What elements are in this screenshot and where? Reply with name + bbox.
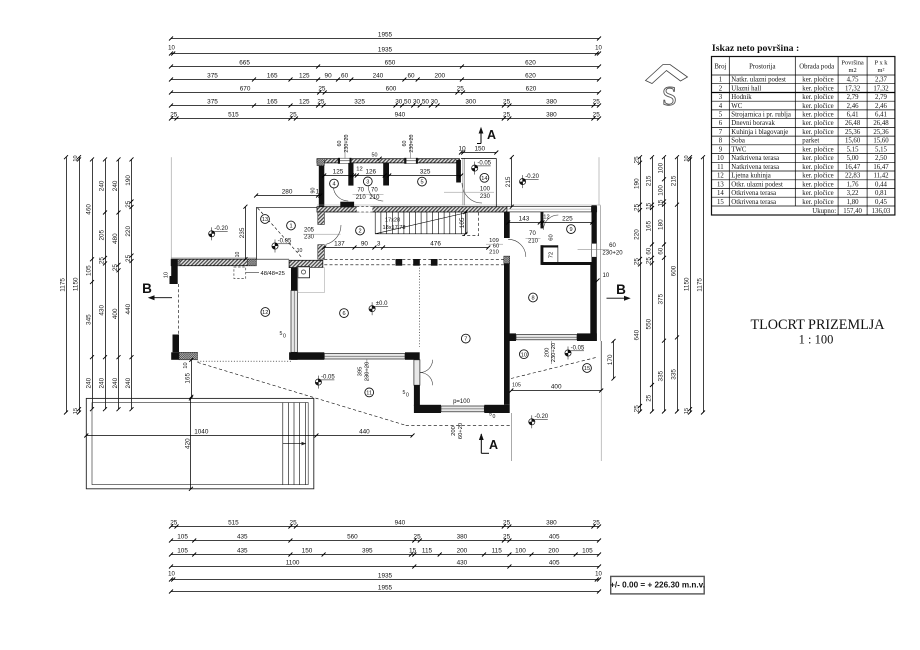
section marker A top: [477, 127, 496, 144]
svg-text:Kuhinja i blagovanje: Kuhinja i blagovanje: [731, 129, 788, 136]
glass band above rooms 9/8: [507, 206, 597, 212]
svg-text:400: 400: [551, 384, 562, 391]
dimension line dim: [184, 396, 193, 490]
extension line left building edge: [170, 157, 172, 259]
wall: partition room5|room14: [456, 160, 461, 183]
svg-text:230+20: 230+20: [344, 134, 350, 152]
room number circle 2: [356, 226, 365, 235]
dimension line dim: [59, 155, 68, 414]
svg-text:50: 50: [404, 99, 412, 106]
svg-text:190: 190: [125, 175, 132, 186]
svg-text:460: 460: [85, 204, 92, 215]
thin outer skin line right wall: [600, 205, 602, 341]
svg-text:25: 25: [125, 200, 132, 208]
svg-text:136,03: 136,03: [872, 208, 891, 215]
svg-text:650: 650: [385, 60, 396, 67]
svg-text:440: 440: [125, 303, 132, 314]
svg-text:940: 940: [395, 112, 406, 119]
svg-text:10: 10: [235, 252, 241, 258]
svg-text:12: 12: [717, 173, 724, 180]
dimension line dim: [322, 169, 354, 178]
svg-text:200: 200: [457, 548, 468, 555]
title TLOCRT PRIZEMLJA: [750, 317, 885, 347]
small 50 above wall: [372, 153, 382, 161]
pool steps: [283, 403, 306, 485]
svg-text:126: 126: [365, 169, 376, 176]
svg-text:210: 210: [528, 239, 539, 245]
svg-text:165: 165: [267, 73, 278, 80]
window in top wall (60/230+20) left: [338, 158, 351, 164]
svg-text:345: 345: [85, 314, 92, 325]
svg-text:4: 4: [719, 103, 723, 110]
svg-text:215: 215: [645, 175, 652, 186]
wall: room7 east wall: [504, 212, 510, 405]
svg-text:2,79: 2,79: [847, 94, 859, 101]
svg-text:210: 210: [356, 195, 367, 201]
dimension line dim: [322, 241, 490, 250]
svg-text:205: 205: [304, 228, 315, 234]
wall: left terrace west wall upper: [171, 259, 178, 284]
svg-text:105: 105: [582, 548, 593, 555]
svg-text:30: 30: [431, 99, 439, 106]
svg-text:10: 10: [521, 352, 527, 358]
svg-text:335: 335: [670, 369, 677, 380]
label 60/230+20 room9 window: [602, 243, 623, 257]
svg-text:25: 25: [503, 534, 511, 541]
svg-text:3: 3: [719, 94, 723, 101]
svg-text:25: 25: [633, 258, 640, 266]
dashed headroom line at stairs: [462, 213, 479, 237]
svg-text:70: 70: [371, 188, 378, 194]
dimension line dim: [696, 155, 705, 414]
svg-text:60: 60: [645, 247, 652, 255]
svg-text:90: 90: [325, 73, 333, 80]
dimension line dim: [169, 60, 601, 69]
svg-text:WC: WC: [731, 103, 742, 110]
svg-text:395: 395: [358, 367, 364, 377]
dimension line dim: [125, 157, 134, 411]
svg-text:400: 400: [112, 308, 119, 319]
svg-text:60: 60: [657, 247, 664, 255]
labels 395/230+20 room11 window: [358, 360, 371, 382]
svg-text:380: 380: [546, 99, 557, 106]
svg-text:60: 60: [402, 141, 408, 147]
spot elevation porch -0.05: [272, 238, 292, 252]
door arc entry room5 (100/230): [462, 183, 482, 203]
svg-text:TWC: TWC: [731, 146, 747, 153]
labels 70/210 room9 door: [526, 231, 541, 245]
svg-text:940: 940: [395, 520, 406, 527]
svg-text:p=100: p=100: [453, 399, 471, 405]
svg-text:25: 25: [633, 203, 640, 211]
dimension line dim: [169, 73, 601, 82]
svg-text:5: 5: [420, 180, 423, 186]
door arc room 3: [368, 186, 383, 201]
svg-text:105: 105: [177, 534, 188, 541]
svg-text:1 : 100: 1 : 100: [799, 333, 834, 347]
dimension line dim: [506, 216, 594, 225]
svg-text:375: 375: [657, 293, 664, 304]
dimension line dim: [509, 384, 603, 393]
svg-text:10: 10: [595, 46, 602, 52]
dotted divider rooms 6|7: [419, 268, 421, 347]
svg-text:ker. pločice: ker. pločice: [802, 146, 833, 153]
dimension line dim: [352, 169, 387, 178]
svg-text:ker. pločice: ker. pločice: [802, 85, 833, 92]
svg-text:2: 2: [358, 229, 361, 235]
dimension line dim: [505, 155, 514, 209]
svg-text:m2: m2: [849, 67, 857, 74]
wall: closet left wall upper (room9): [541, 212, 544, 229]
extension line bottom right: [600, 391, 602, 462]
svg-text:200: 200: [434, 73, 445, 80]
section marker B left: [142, 281, 172, 300]
window in top wall (60/230+20) right: [404, 158, 417, 164]
dimension line dim: [239, 205, 248, 262]
svg-text:220: 220: [633, 229, 640, 240]
svg-text:137: 137: [334, 241, 345, 248]
svg-text:2: 2: [719, 85, 723, 92]
small 50 labels: [280, 331, 496, 420]
svg-text:10: 10: [684, 155, 690, 161]
extension line right building edge: [598, 157, 600, 205]
svg-text:Ljetna kuhinja: Ljetna kuhinja: [731, 173, 770, 180]
svg-text:25: 25: [593, 99, 601, 106]
svg-text:420: 420: [184, 438, 191, 449]
svg-text:100: 100: [657, 185, 664, 196]
svg-text:15,60: 15,60: [845, 138, 861, 145]
room number circle 1: [287, 221, 296, 230]
svg-text:12: 12: [543, 215, 549, 221]
svg-text:Otkrivena terasa: Otkrivena terasa: [731, 190, 776, 197]
svg-text:2,46: 2,46: [847, 103, 859, 110]
svg-text:30: 30: [395, 99, 403, 106]
svg-text:90: 90: [311, 188, 317, 194]
svg-text:ker. pločice: ker. pločice: [802, 94, 833, 101]
svg-text:5: 5: [719, 112, 723, 119]
svg-text:205: 205: [98, 229, 105, 240]
rotated labels 60 / 72 closet: [548, 234, 554, 258]
svg-text:165: 165: [185, 373, 192, 384]
room number circle 13: [261, 215, 270, 224]
svg-text:240: 240: [98, 180, 105, 191]
dimension line dim: [459, 210, 468, 236]
svg-text:48/48=25: 48/48=25: [261, 271, 285, 277]
svg-text:115: 115: [492, 548, 503, 555]
svg-text:15: 15: [717, 199, 724, 206]
dotted terrace edge line: [198, 360, 292, 362]
wall: partition room4|room3: [340, 163, 354, 207]
svg-text:A: A: [487, 128, 496, 142]
wall: room6 west wall: [291, 260, 298, 360]
svg-text:480: 480: [112, 233, 119, 244]
svg-text:105: 105: [512, 383, 521, 389]
room number circle 4: [330, 179, 339, 188]
svg-text:15: 15: [684, 408, 690, 414]
svg-text:6: 6: [719, 120, 723, 127]
svg-text:4,75: 4,75: [847, 77, 859, 84]
wall: left terrace west wall lower: [173, 335, 180, 353]
svg-text:60: 60: [609, 243, 616, 249]
svg-text:25: 25: [645, 394, 652, 402]
svg-text:11: 11: [717, 164, 724, 171]
dimension line dim: [387, 169, 463, 178]
svg-text:335: 335: [657, 370, 664, 381]
svg-text:600: 600: [386, 86, 397, 93]
svg-text:60: 60: [407, 73, 415, 80]
svg-text:25: 25: [290, 520, 298, 527]
dimension line dim: [459, 146, 499, 155]
svg-text:100: 100: [657, 162, 664, 173]
wall: partition room3|hall: [383, 163, 389, 186]
svg-text:-0.05: -0.05: [321, 375, 335, 381]
svg-text:240: 240: [125, 377, 132, 388]
svg-text:125: 125: [299, 99, 310, 106]
svg-text:125: 125: [299, 73, 310, 80]
svg-text:Strojarnica i pr. rublja: Strojarnica i pr. rublja: [731, 112, 791, 119]
svg-text:0,81: 0,81: [875, 190, 887, 197]
svg-text:25: 25: [503, 520, 511, 527]
svg-text:550: 550: [645, 318, 652, 329]
svg-text:105: 105: [459, 217, 466, 228]
svg-text:4: 4: [332, 182, 335, 188]
pool outer: [86, 398, 313, 488]
svg-text:620: 620: [525, 73, 536, 80]
entry door arc in wall x317-324: [326, 225, 342, 245]
svg-text:25: 25: [125, 254, 132, 262]
svg-text:±0.0: ±0.0: [376, 301, 388, 307]
section marker A bottom: [479, 433, 498, 453]
svg-text:240: 240: [112, 377, 119, 388]
svg-text:240: 240: [112, 180, 119, 191]
svg-text:180: 180: [657, 219, 664, 230]
dimension line dim: [169, 573, 601, 582]
svg-text:200: 200: [548, 548, 559, 555]
wall: room8 south window band: [504, 333, 597, 341]
room number circle 8: [529, 293, 538, 302]
opening: door room3 bottom (dashed): [357, 206, 373, 212]
wall: upper block left exterior wall: [317, 159, 324, 208]
svg-text:165: 165: [645, 220, 652, 231]
svg-text:22,83: 22,83: [845, 173, 861, 180]
svg-text:15: 15: [584, 366, 590, 372]
svg-text:6,41: 6,41: [847, 112, 859, 119]
svg-text:210: 210: [369, 195, 380, 201]
section marker B right: [607, 282, 631, 301]
svg-text:10: 10: [459, 146, 467, 153]
svg-text:7: 7: [719, 129, 723, 136]
svg-text:10: 10: [168, 46, 175, 52]
svg-text:230: 230: [480, 194, 491, 200]
svg-text:0,45: 0,45: [875, 199, 887, 206]
svg-text:8: 8: [719, 138, 723, 145]
svg-text:665: 665: [239, 60, 250, 67]
svg-text:Dnevni boravak: Dnevni boravak: [731, 120, 775, 127]
room number circle 6: [340, 309, 349, 318]
svg-text:165: 165: [267, 99, 278, 106]
svg-text:15: 15: [657, 199, 664, 207]
svg-text:10: 10: [183, 362, 189, 368]
svg-text:100: 100: [515, 548, 526, 555]
svg-text:50: 50: [422, 99, 430, 106]
svg-text:25: 25: [98, 257, 105, 265]
wall: room6 south wall: [289, 352, 420, 360]
dimension line dim: [645, 155, 654, 413]
svg-text:1: 1: [719, 77, 722, 84]
svg-text:0: 0: [406, 393, 409, 399]
svg-text:380: 380: [546, 520, 557, 527]
svg-text:70: 70: [357, 188, 364, 194]
svg-text:Površina: Površina: [841, 60, 864, 67]
svg-text:26,48: 26,48: [873, 120, 889, 127]
closet walls: [541, 245, 558, 265]
wall: left terrace top wall: [171, 258, 256, 266]
svg-text:25: 25: [503, 112, 511, 119]
dimension line dim: [169, 99, 601, 108]
svg-text:6: 6: [342, 311, 345, 317]
svg-text:ker. pločice: ker. pločice: [802, 199, 833, 206]
label 10 right wall: [596, 273, 610, 283]
svg-text:0: 0: [283, 334, 286, 340]
svg-text:30: 30: [413, 99, 421, 106]
wall: room6 north-west corner band: [289, 260, 324, 292]
svg-text:220: 220: [125, 226, 132, 237]
window dims above top wall: [337, 134, 350, 158]
svg-text:25: 25: [633, 156, 640, 164]
svg-text:215: 215: [670, 175, 677, 186]
svg-text:Iskaz neto površina :: Iskaz neto površina :: [712, 43, 799, 54]
labels 200/60+20 below room7: [451, 423, 464, 439]
wall: divider room9|room8: [542, 262, 592, 265]
svg-text:3: 3: [366, 180, 369, 186]
room number circle 15: [583, 364, 592, 373]
svg-text:1175: 1175: [696, 278, 703, 292]
svg-text:200: 200: [451, 426, 457, 436]
svg-text:2,37: 2,37: [875, 77, 887, 84]
svg-text:70: 70: [529, 231, 536, 237]
svg-text:ker. pločice: ker. pločice: [802, 112, 833, 119]
dimension line dim: [169, 585, 601, 594]
svg-text:25: 25: [457, 86, 465, 93]
dimension line dim: [185, 358, 194, 399]
svg-text:ker. pločice: ker. pločice: [802, 103, 833, 110]
svg-text:230+20: 230+20: [365, 362, 371, 382]
north arrow chevron: [646, 65, 688, 84]
dashed diagonal porch 13: [258, 208, 303, 258]
svg-text:25: 25: [633, 405, 640, 413]
svg-text:ker. pločice: ker. pločice: [802, 181, 833, 188]
dimension line dim: [169, 520, 601, 529]
svg-text:25: 25: [414, 534, 422, 541]
svg-text:10: 10: [73, 155, 79, 161]
svg-text:325: 325: [420, 169, 431, 176]
svg-text:10: 10: [316, 189, 324, 196]
svg-text:ker. pločice: ker. pločice: [802, 173, 833, 180]
spot elevation left -0.20: [209, 226, 229, 240]
svg-text:Otkr. ulazni podest: Otkr. ulazni podest: [731, 181, 783, 188]
svg-text:ker. pločice: ker. pločice: [802, 155, 833, 162]
svg-text:16,47: 16,47: [873, 164, 889, 171]
spot elevation room14 -0.05: [472, 161, 492, 175]
dashed diagonal room 10: [511, 358, 596, 379]
svg-text:1150: 1150: [72, 277, 79, 291]
wall: right exterior wall room8: [590, 265, 597, 341]
svg-text:2,46: 2,46: [875, 103, 887, 110]
svg-text:90: 90: [361, 241, 369, 248]
svg-text:7: 7: [464, 337, 467, 343]
svg-text:17,32: 17,32: [845, 85, 861, 92]
svg-text:B: B: [142, 281, 152, 296]
svg-text:9: 9: [719, 146, 723, 153]
svg-text:105: 105: [85, 265, 92, 276]
svg-text:25: 25: [318, 86, 326, 93]
svg-text:17,32: 17,32: [873, 85, 889, 92]
svg-text:640: 640: [633, 329, 640, 340]
room number circle 11: [365, 388, 374, 397]
svg-text:380: 380: [457, 534, 468, 541]
room number circle 12: [261, 308, 270, 317]
spot elevation top right -0.20: [520, 174, 540, 188]
svg-text:1175: 1175: [59, 278, 66, 292]
svg-text:25: 25: [503, 99, 511, 106]
svg-text:515: 515: [228, 112, 239, 119]
svg-text:-0.20: -0.20: [525, 174, 539, 180]
wall: room7 south wall: [414, 405, 510, 413]
room number circle 7: [461, 334, 470, 343]
dimension line dim: [169, 86, 601, 95]
svg-text:15: 15: [409, 548, 417, 555]
svg-text:375: 375: [207, 99, 218, 106]
svg-text:14: 14: [481, 176, 487, 182]
thin extension below room7 corner: [510, 413, 512, 461]
wall: right exterior wall room9: [578, 205, 609, 265]
door arc room 4: [333, 186, 348, 201]
svg-text:300: 300: [465, 99, 476, 106]
svg-text:395: 395: [362, 548, 373, 555]
svg-text:26,48: 26,48: [845, 120, 861, 127]
svg-text:143: 143: [519, 216, 530, 223]
svg-text:ker. pločice: ker. pločice: [802, 77, 833, 84]
svg-text:25: 25: [112, 264, 119, 272]
svg-text:B: B: [616, 282, 626, 297]
room number circle 9: [567, 225, 576, 234]
dashed path line horizontal: [406, 424, 512, 426]
pillar 48/48 dashed: [234, 267, 246, 279]
svg-text:72: 72: [548, 252, 554, 258]
svg-text:TLOCRT PRIZEMLJA: TLOCRT PRIZEMLJA: [750, 317, 885, 333]
dimension line dim: [169, 548, 601, 557]
svg-text:240: 240: [85, 377, 92, 388]
spot elevation bottom -0.20: [529, 414, 549, 428]
wall: upper block top exterior wall: [317, 159, 460, 163]
svg-text:230: 230: [304, 235, 315, 241]
svg-text:210: 210: [489, 250, 499, 256]
svg-text:ker. pločice: ker. pločice: [802, 120, 833, 127]
dimension line dim: [169, 534, 601, 543]
dimension line dim: [607, 339, 616, 381]
svg-text:60: 60: [548, 234, 554, 240]
svg-text:Broj: Broj: [714, 64, 726, 71]
svg-text:A: A: [489, 438, 498, 452]
svg-text:ker. pločice: ker. pločice: [802, 190, 833, 197]
svg-text:405: 405: [549, 534, 560, 541]
svg-text:-0.20: -0.20: [214, 226, 228, 232]
svg-text:5,15: 5,15: [875, 146, 887, 153]
wall: left terrace south-west corner: [171, 352, 197, 360]
svg-text:1100: 1100: [286, 560, 300, 567]
svg-text:230+20: 230+20: [409, 134, 415, 152]
wall: hall west exterior wall (below band): [318, 212, 325, 259]
